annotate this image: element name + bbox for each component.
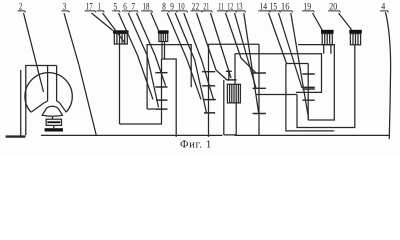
housing rect1 <box>162 59 177 137</box>
brake 18 box <box>159 33 168 41</box>
link h44 <box>209 43 260 45</box>
leader 7 <box>137 13 166 86</box>
leader 11 <box>226 13 257 73</box>
link h94 <box>256 94 297 96</box>
leader 19 <box>313 13 323 30</box>
leader 16 <box>291 13 309 118</box>
leader 8 <box>167 13 201 100</box>
shaft B <box>208 44 210 137</box>
underline 1 <box>97 11 105 12</box>
brake 17 hatch <box>117 33 125 44</box>
underline 2 <box>18 11 26 12</box>
brake 20 hatch <box>353 34 358 45</box>
leader 1 <box>103 13 126 43</box>
stub 21 <box>228 71 230 80</box>
output line 4 <box>386 12 391 139</box>
motor channel left <box>45 66 48 103</box>
motor arm left <box>31 102 45 112</box>
leader 6 <box>128 13 158 107</box>
brake 17 band <box>113 30 129 33</box>
gear ticks shaft D <box>302 74 314 100</box>
baseline <box>41 134 390 136</box>
shaft D <box>307 64 309 121</box>
bracket L2 <box>297 45 355 128</box>
underline 20 <box>328 11 340 12</box>
underline 5 <box>112 11 120 12</box>
leader 3 <box>64 13 79 65</box>
leader 5 <box>119 13 154 100</box>
gear ticks shaft B <box>202 72 216 113</box>
motor channel right <box>57 66 60 103</box>
underline 4 <box>380 11 389 12</box>
underline 15 <box>268 11 280 12</box>
leader 22 <box>197 13 228 80</box>
motor coupling stripe <box>47 121 60 123</box>
motor arm right <box>59 102 66 112</box>
underline 14 <box>258 11 270 12</box>
motor coupling block <box>46 119 61 125</box>
brake 17 box <box>114 33 127 44</box>
brake 19 box <box>322 34 332 45</box>
underline 18 <box>141 11 153 12</box>
shaft 17 <box>119 44 121 124</box>
underline 12 <box>226 11 237 12</box>
underline 8 <box>161 11 169 12</box>
clutch 22 hatch <box>230 84 239 103</box>
small gear tick 21 <box>226 70 232 72</box>
clutch 22 bottom bracket <box>224 103 236 135</box>
housing rect2 <box>286 63 308 65</box>
underline 11 <box>217 11 227 12</box>
underline 22 <box>191 11 203 12</box>
motor housing <box>26 66 57 136</box>
brake 19 hatch <box>325 34 330 45</box>
frame base left <box>6 135 26 137</box>
motor circle <box>25 73 72 113</box>
bracket U1 <box>120 59 162 124</box>
underline 10 <box>177 11 188 12</box>
underline 3 <box>61 11 69 12</box>
brake 18 stems <box>162 42 165 60</box>
leader 17 <box>92 13 113 31</box>
brake 19 band <box>321 30 334 34</box>
clutch 22 box <box>227 84 240 103</box>
motor frame slant <box>79 65 97 136</box>
underline 7 <box>130 11 138 12</box>
leader 10 <box>184 13 214 100</box>
svg-text:Фиг. 1: Фиг. 1 <box>180 138 212 150</box>
leader 2 <box>24 13 44 92</box>
motor bell <box>42 106 62 116</box>
motor stem lower <box>53 125 55 128</box>
underline 16 <box>280 11 293 12</box>
motor stem upper <box>52 117 54 120</box>
bracket L1 <box>298 45 334 120</box>
housing bracket 2 <box>147 45 191 109</box>
brake 20 box <box>350 34 360 45</box>
leader 12 <box>235 13 257 88</box>
housing connector <box>147 108 157 110</box>
underline 17 <box>85 11 97 12</box>
shaft 22 upper <box>234 54 236 85</box>
brake 20 band <box>349 30 362 34</box>
brake 18 hatch <box>161 33 165 41</box>
leader 20 <box>339 13 352 30</box>
brake 18 band <box>158 30 169 33</box>
underline 6 <box>122 11 130 12</box>
underline 13 <box>235 11 246 12</box>
leader 21 <box>211 13 232 78</box>
underline 19 <box>302 11 314 12</box>
underline 21 <box>202 11 213 12</box>
motor base bar <box>45 128 63 131</box>
underline 9 <box>169 11 177 12</box>
gear tick 22 <box>227 79 237 81</box>
leader 18 <box>151 13 159 31</box>
leader 13 <box>244 13 259 114</box>
brake 19 stem <box>324 45 331 54</box>
leader 15 <box>279 13 303 88</box>
clutch 22 left line <box>223 80 225 135</box>
leader 14 <box>269 13 287 64</box>
drum top <box>235 54 322 93</box>
gear ticks shaft C <box>253 73 266 114</box>
frame left vertical <box>20 70 22 136</box>
bracket L3 <box>286 64 334 131</box>
shaft C <box>258 44 260 135</box>
leader 9 <box>175 13 206 113</box>
gear ticks shaft A <box>155 73 167 109</box>
